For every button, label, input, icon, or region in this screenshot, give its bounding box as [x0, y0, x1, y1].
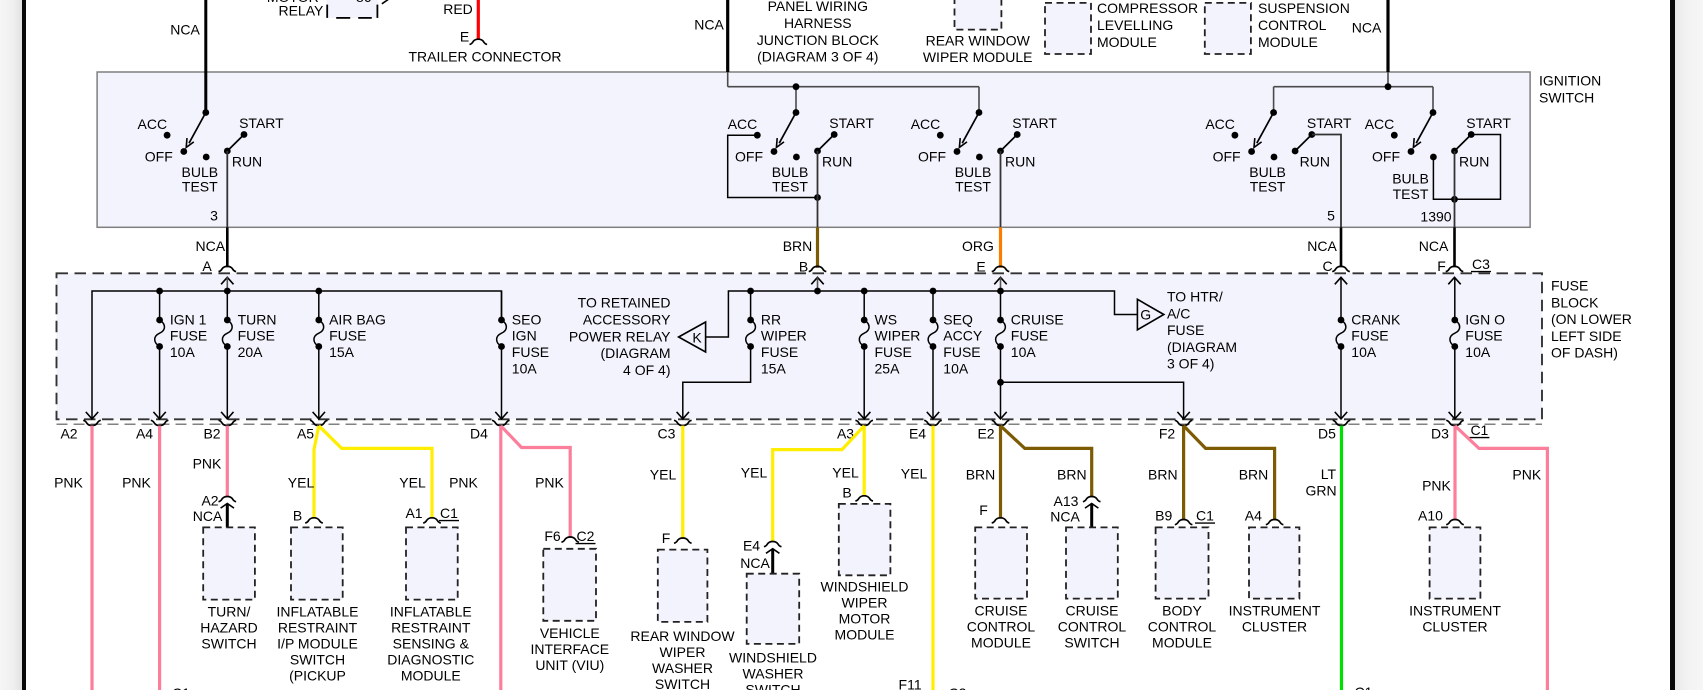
svg-text:G: G — [1140, 307, 1151, 323]
svg-text:YEL: YEL — [288, 475, 315, 491]
svg-text:DIAGNOSTIC: DIAGNOSTIC — [387, 652, 474, 668]
svg-text:WS: WS — [875, 311, 898, 327]
svg-text:20A: 20A — [238, 344, 264, 360]
svg-text:CLUSTER: CLUSTER — [1422, 618, 1487, 634]
svg-text:SWITCH: SWITCH — [1539, 90, 1594, 106]
svg-text:4 OF 4): 4 OF 4) — [623, 362, 670, 378]
svg-text:SWITCH: SWITCH — [1064, 635, 1119, 651]
svg-text:START: START — [1466, 115, 1511, 131]
svg-text:RUN: RUN — [232, 154, 262, 170]
svg-text:BRN: BRN — [1057, 467, 1087, 483]
svg-text:MODULE: MODULE — [1152, 635, 1212, 651]
svg-text:25A: 25A — [875, 360, 901, 376]
svg-text:B: B — [799, 259, 808, 275]
svg-text:WIPER: WIPER — [875, 328, 921, 344]
svg-text:5: 5 — [1327, 208, 1335, 224]
svg-text:WIPER: WIPER — [842, 594, 888, 610]
svg-text:TRAILER CONNECTOR: TRAILER CONNECTOR — [409, 49, 562, 65]
svg-text:FUSE: FUSE — [875, 344, 912, 360]
svg-text:(DIAGRAM: (DIAGRAM — [1167, 339, 1237, 355]
svg-text:WINDSHIELD: WINDSHIELD — [729, 650, 817, 666]
svg-text:FUSE: FUSE — [329, 328, 366, 344]
svg-text:CRUISE: CRUISE — [1011, 311, 1064, 327]
svg-text:POWER RELAY: POWER RELAY — [569, 328, 671, 344]
svg-text:A5: A5 — [297, 425, 314, 441]
svg-text:START: START — [239, 115, 284, 131]
svg-text:A10: A10 — [1418, 508, 1443, 524]
svg-text:(DIAGRAM 3 OF 4): (DIAGRAM 3 OF 4) — [757, 49, 878, 65]
svg-text:PNK: PNK — [193, 456, 222, 472]
svg-text:FUSE: FUSE — [1465, 328, 1502, 344]
svg-text:F: F — [662, 530, 671, 546]
svg-text:OFF: OFF — [145, 149, 173, 165]
svg-text:JUNCTION BLOCK: JUNCTION BLOCK — [757, 32, 880, 48]
svg-text:INFLATABLE: INFLATABLE — [390, 603, 472, 619]
svg-text:A4: A4 — [136, 425, 153, 441]
svg-text:TO HTR/: TO HTR/ — [1167, 289, 1223, 305]
svg-text:10A: 10A — [170, 344, 196, 360]
svg-text:LEFT SIDE: LEFT SIDE — [1551, 328, 1622, 344]
svg-text:FUSE: FUSE — [170, 328, 207, 344]
svg-text:COMPRESSOR: COMPRESSOR — [1097, 0, 1198, 16]
svg-text:D4: D4 — [470, 425, 488, 441]
svg-text:FUSE: FUSE — [943, 344, 980, 360]
svg-text:LT: LT — [1321, 466, 1337, 482]
svg-text:ACC: ACC — [1205, 116, 1235, 132]
svg-text:SENSING &: SENSING & — [393, 636, 470, 652]
svg-text:BULB: BULB — [1392, 171, 1429, 187]
svg-text:LEVELLING: LEVELLING — [1097, 17, 1173, 33]
svg-text:MODULE: MODULE — [1097, 34, 1157, 50]
svg-text:TURN: TURN — [238, 311, 277, 327]
svg-text:CONTROL: CONTROL — [967, 618, 1036, 634]
svg-text:MODULE: MODULE — [971, 635, 1031, 651]
svg-text:C2: C2 — [949, 685, 967, 690]
svg-text:OFF: OFF — [1213, 149, 1241, 165]
svg-text:A1: A1 — [405, 505, 422, 521]
svg-text:K: K — [692, 330, 702, 346]
svg-text:F: F — [979, 502, 988, 518]
svg-text:PNK: PNK — [122, 475, 151, 491]
svg-text:C1: C1 — [440, 505, 458, 521]
svg-text:(PICKUP: (PICKUP — [289, 668, 346, 684]
svg-text:BULB: BULB — [772, 164, 809, 180]
svg-text:TEST: TEST — [1393, 186, 1429, 202]
svg-text:PNK: PNK — [54, 475, 83, 491]
svg-text:NCA: NCA — [1307, 238, 1337, 254]
svg-text:CRUISE: CRUISE — [975, 602, 1028, 618]
svg-text:NCA: NCA — [1419, 238, 1449, 254]
svg-text:BRN: BRN — [966, 467, 996, 483]
svg-text:SWITCH: SWITCH — [745, 682, 800, 690]
svg-text:E: E — [460, 29, 469, 45]
svg-text:TEST: TEST — [772, 179, 808, 195]
svg-text:OFF: OFF — [735, 149, 763, 165]
svg-text:CRANK: CRANK — [1351, 311, 1401, 327]
svg-text:3 OF 4): 3 OF 4) — [1167, 356, 1214, 372]
svg-text:NCA: NCA — [196, 238, 226, 254]
svg-text:CRUISE: CRUISE — [1066, 602, 1119, 618]
svg-text:15A: 15A — [761, 360, 787, 376]
svg-text:FUSE: FUSE — [1167, 322, 1204, 338]
svg-text:B2: B2 — [203, 425, 220, 441]
svg-text:ACC: ACC — [1365, 116, 1395, 132]
svg-text:IGN: IGN — [512, 328, 537, 344]
svg-text:C1: C1 — [172, 685, 190, 690]
svg-text:GRN: GRN — [1305, 483, 1336, 499]
svg-text:FUSE: FUSE — [1551, 278, 1588, 294]
svg-text:WASHER: WASHER — [743, 666, 804, 682]
svg-text:A2: A2 — [201, 493, 218, 509]
svg-text:RUN: RUN — [822, 154, 852, 170]
svg-text:SEQ: SEQ — [943, 311, 973, 327]
svg-text:D3: D3 — [1431, 425, 1449, 441]
svg-text:FUSE: FUSE — [761, 344, 798, 360]
svg-text:NCA: NCA — [170, 22, 200, 38]
svg-text:15A: 15A — [329, 344, 355, 360]
svg-text:C3: C3 — [658, 425, 676, 441]
svg-text:F11: F11 — [899, 677, 922, 690]
svg-text:(DIAGRAM: (DIAGRAM — [601, 345, 671, 361]
svg-text:IGNITION: IGNITION — [1539, 73, 1601, 89]
svg-text:WIPER: WIPER — [761, 328, 807, 344]
svg-text:TURN/: TURN/ — [208, 603, 251, 619]
svg-text:START: START — [1012, 115, 1057, 131]
svg-text:10A: 10A — [1011, 344, 1037, 360]
svg-text:B: B — [842, 485, 851, 501]
svg-text:ACC: ACC — [911, 116, 941, 132]
svg-text:10A: 10A — [1351, 344, 1377, 360]
svg-text:TEST: TEST — [955, 179, 991, 195]
svg-text:IGN 1: IGN 1 — [170, 311, 207, 327]
svg-text:SWITCH: SWITCH — [290, 652, 345, 668]
svg-text:1390: 1390 — [1420, 209, 1451, 225]
svg-text:F2: F2 — [1159, 425, 1176, 441]
svg-text:ORG: ORG — [962, 238, 994, 254]
svg-text:WASHER: WASHER — [652, 660, 713, 676]
svg-text:F: F — [1437, 258, 1446, 274]
svg-text:AIR BAG: AIR BAG — [329, 311, 386, 327]
svg-text:UNIT (VIU): UNIT (VIU) — [535, 657, 604, 673]
svg-text:B: B — [293, 508, 302, 524]
svg-text:HARNESS: HARNESS — [784, 15, 852, 31]
svg-text:YEL: YEL — [399, 475, 426, 491]
svg-text:WIPER MODULE: WIPER MODULE — [923, 49, 1033, 65]
svg-text:PNK: PNK — [1512, 467, 1541, 483]
svg-text:C1: C1 — [1355, 684, 1373, 690]
svg-text:BULB: BULB — [1249, 164, 1286, 180]
svg-text:RUN: RUN — [1300, 154, 1330, 170]
svg-text:CONTROL: CONTROL — [1058, 618, 1127, 634]
svg-text:10A: 10A — [1465, 344, 1491, 360]
svg-text:FUSE: FUSE — [512, 344, 549, 360]
svg-text:SEO: SEO — [512, 311, 542, 327]
svg-text:TO RETAINED: TO RETAINED — [578, 295, 671, 311]
svg-text:BULB: BULB — [955, 164, 992, 180]
svg-text:SUSPENSION: SUSPENSION — [1258, 0, 1350, 16]
svg-text:FUSE: FUSE — [1011, 328, 1048, 344]
svg-text:10A: 10A — [943, 360, 969, 376]
svg-text:E: E — [976, 259, 985, 275]
svg-text:BODY: BODY — [1162, 602, 1202, 618]
svg-text:MODULE: MODULE — [835, 627, 895, 643]
svg-text:BLOCK: BLOCK — [1551, 294, 1599, 310]
svg-text:ACCY: ACCY — [943, 328, 983, 344]
svg-text:FUSE: FUSE — [1351, 328, 1388, 344]
svg-text:BULB: BULB — [182, 164, 219, 180]
svg-text:I/P MODULE: I/P MODULE — [277, 636, 358, 652]
svg-text:INFLATABLE: INFLATABLE — [277, 603, 359, 619]
svg-text:C3: C3 — [1472, 256, 1490, 272]
svg-text:E2: E2 — [977, 425, 994, 441]
svg-text:MODULE: MODULE — [1258, 34, 1318, 50]
svg-text:NCA: NCA — [1352, 20, 1382, 36]
svg-text:TEST: TEST — [182, 179, 218, 195]
svg-text:(ON LOWER: (ON LOWER — [1551, 311, 1632, 327]
svg-text:MODULE: MODULE — [401, 668, 461, 684]
svg-text:INTERFACE: INTERFACE — [531, 641, 610, 657]
svg-text:OFF: OFF — [1372, 149, 1400, 165]
svg-text:NCA: NCA — [1050, 509, 1080, 525]
svg-text:E4: E4 — [743, 538, 760, 554]
svg-text:INSTRUMENT: INSTRUMENT — [1229, 602, 1321, 618]
svg-text:YEL: YEL — [741, 465, 768, 481]
svg-text:CONTROL: CONTROL — [1148, 618, 1217, 634]
svg-text:RUN: RUN — [1459, 154, 1489, 170]
svg-text:REAR WINDOW: REAR WINDOW — [926, 32, 1031, 48]
svg-text:BRN: BRN — [1148, 467, 1178, 483]
svg-text:YEL: YEL — [650, 467, 677, 483]
svg-text:HAZARD: HAZARD — [200, 619, 258, 635]
svg-text:IGN O: IGN O — [1465, 311, 1505, 327]
svg-text:PNK: PNK — [535, 475, 564, 491]
svg-text:A/C: A/C — [1167, 305, 1190, 321]
svg-text:NCA: NCA — [193, 508, 223, 524]
svg-text:SWITCH: SWITCH — [201, 636, 256, 652]
svg-text:BRN: BRN — [1239, 467, 1269, 483]
svg-text:A2: A2 — [60, 425, 77, 441]
svg-text:RED: RED — [443, 1, 473, 17]
svg-text:CONTROL: CONTROL — [1258, 17, 1327, 33]
svg-text:START: START — [829, 115, 874, 131]
svg-text:A4: A4 — [1245, 508, 1262, 524]
svg-text:INSTRUMENT: INSTRUMENT — [1409, 602, 1501, 618]
svg-text:3: 3 — [210, 208, 218, 224]
svg-text:PNK: PNK — [449, 475, 478, 491]
svg-text:ACCESSORY: ACCESSORY — [583, 311, 671, 327]
svg-text:YEL: YEL — [832, 465, 859, 481]
svg-text:RELAY: RELAY — [278, 3, 324, 19]
svg-text:RUN: RUN — [1005, 154, 1035, 170]
svg-text:MOTOR: MOTOR — [839, 611, 891, 627]
svg-text:RESTRAINT: RESTRAINT — [391, 619, 471, 635]
svg-text:F6: F6 — [544, 528, 561, 544]
svg-text:BRN: BRN — [783, 238, 813, 254]
svg-text:TEST: TEST — [1250, 179, 1286, 195]
svg-text:OF DASH): OF DASH) — [1551, 345, 1618, 361]
svg-text:REAR WINDOW: REAR WINDOW — [630, 628, 735, 644]
svg-text:A: A — [202, 258, 212, 274]
svg-text:A13: A13 — [1054, 493, 1079, 509]
svg-text:C: C — [1322, 258, 1332, 274]
svg-text:E4: E4 — [909, 425, 926, 441]
svg-text:C1: C1 — [1470, 422, 1488, 438]
svg-text:YEL: YEL — [901, 466, 928, 482]
svg-text:WINDSHIELD: WINDSHIELD — [821, 578, 909, 594]
svg-text:START: START — [1307, 115, 1352, 131]
svg-text:SWITCH: SWITCH — [655, 676, 710, 690]
svg-text:PANEL WIRING: PANEL WIRING — [768, 0, 868, 14]
svg-text:WIPER: WIPER — [660, 644, 706, 660]
svg-text:C2: C2 — [577, 528, 595, 544]
svg-text:ACC: ACC — [138, 116, 168, 132]
svg-text:CLUSTER: CLUSTER — [1242, 618, 1307, 634]
svg-text:NCA: NCA — [740, 555, 770, 571]
svg-text:10A: 10A — [512, 360, 538, 376]
svg-text:PNK: PNK — [1422, 478, 1451, 494]
svg-text:ACC: ACC — [728, 116, 758, 132]
svg-text:D5: D5 — [1318, 425, 1336, 441]
svg-text:B9: B9 — [1155, 508, 1172, 524]
svg-text:FUSE: FUSE — [238, 328, 275, 344]
svg-text:C1: C1 — [1196, 508, 1214, 524]
svg-text:86: 86 — [356, 0, 372, 5]
svg-text:OFF: OFF — [918, 149, 946, 165]
svg-text:RR: RR — [761, 311, 781, 327]
svg-text:VEHICLE: VEHICLE — [540, 625, 600, 641]
svg-text:RESTRAINT: RESTRAINT — [278, 619, 358, 635]
svg-text:NCA: NCA — [694, 17, 724, 33]
